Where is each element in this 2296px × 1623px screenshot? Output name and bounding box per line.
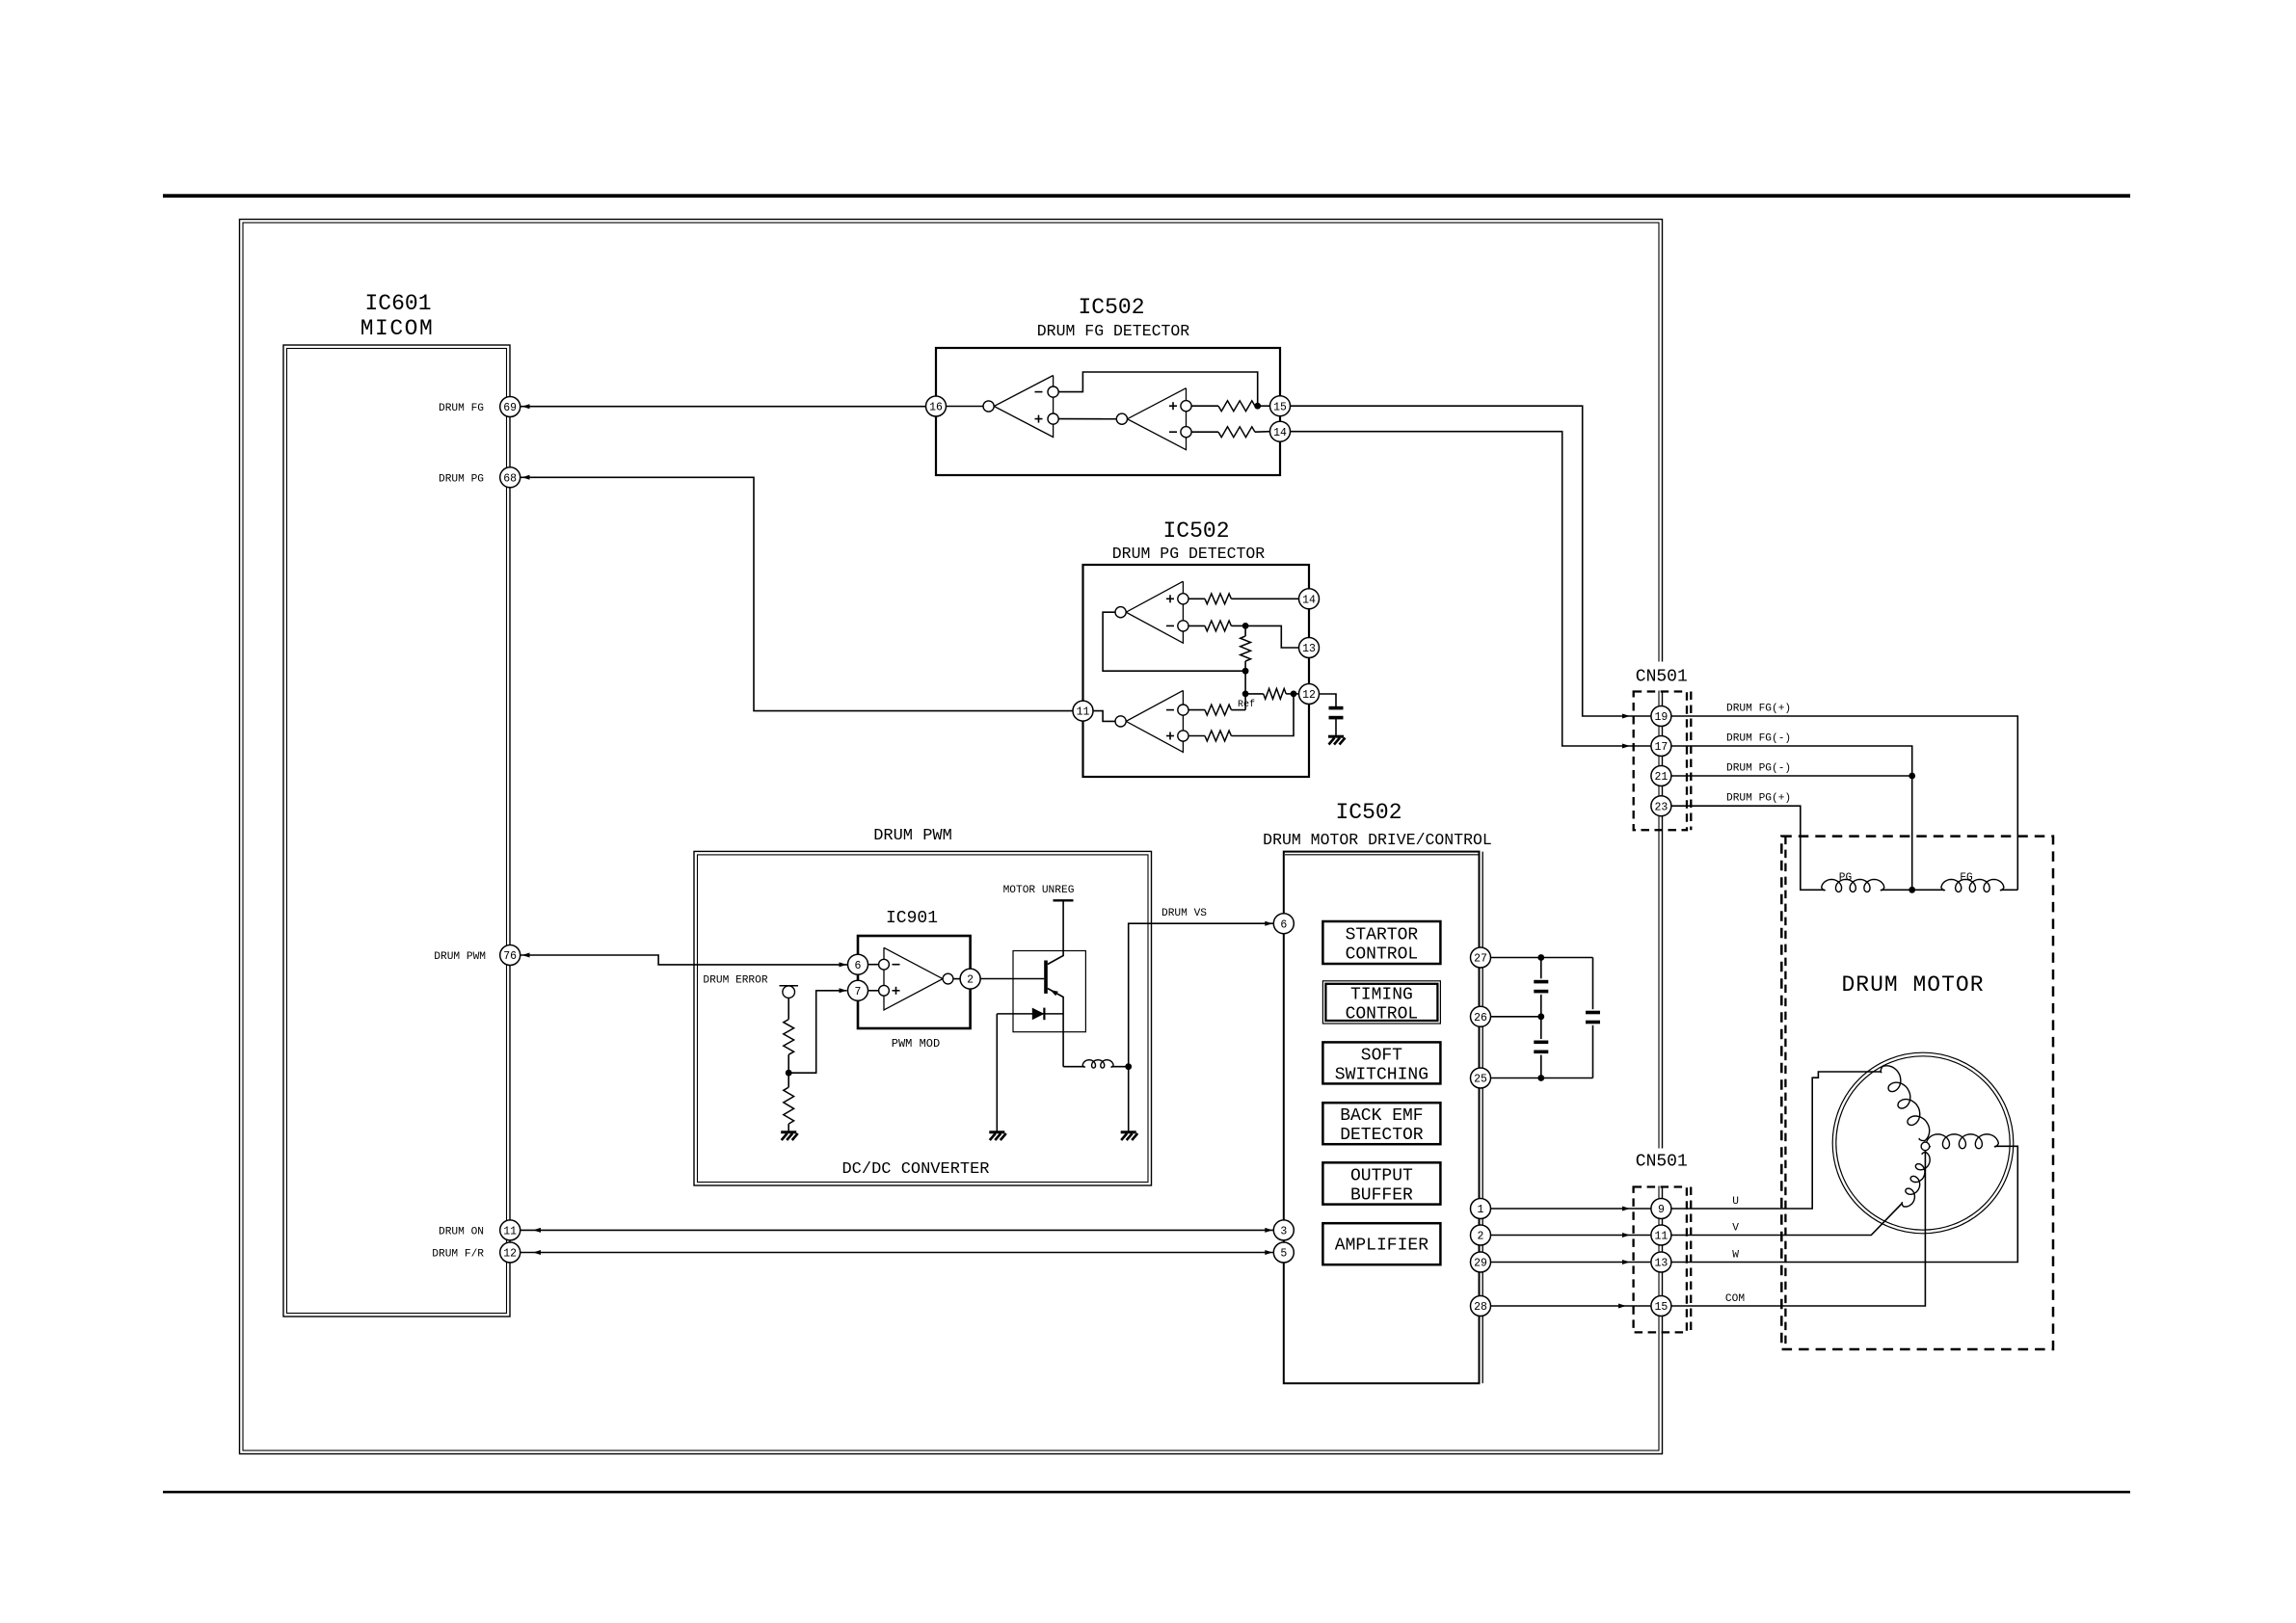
- svg-text:MOTOR UNREG: MOTOR UNREG: [1003, 885, 1075, 896]
- svg-text:Ref: Ref: [1238, 699, 1255, 710]
- ground (VS node): [1121, 1132, 1138, 1140]
- inductor L901: [1082, 1060, 1113, 1068]
- wire CN pin13 W to motor winding 2: [1671, 1146, 2017, 1262]
- resistor R-PG6: [1205, 731, 1231, 741]
- svg-text:26: 26: [1474, 1012, 1487, 1024]
- svg-text:21: 21: [1654, 771, 1668, 784]
- function box BACK EMF DETECTOR: [1322, 1103, 1440, 1144]
- wire junction to Ref node / U-PG2 minus: [1244, 671, 1246, 709]
- svg-text:2: 2: [1478, 1231, 1484, 1243]
- wire pin27 row: [1490, 957, 1593, 959]
- wire output to pin2: [953, 978, 960, 980]
- wire pin26 row: [1490, 1016, 1541, 1018]
- motor winding 1 (U, upper-left): [1881, 1066, 1930, 1141]
- pin 6 IC901: [848, 954, 868, 974]
- svg-text:PWM MOD: PWM MOD: [892, 1037, 940, 1051]
- pin 76 DRUM PWM: [500, 945, 521, 966]
- wire CN pin21 to node: [1671, 775, 1912, 777]
- diode D901: [997, 1013, 1063, 1015]
- junction node FG+: [1254, 403, 1261, 410]
- svg-text:12: 12: [1302, 689, 1316, 702]
- wire to vertical resistor: [1244, 625, 1246, 636]
- wire PG coil to junction: [1882, 889, 1912, 891]
- arrow into pin 5: [1265, 1250, 1272, 1255]
- wire CN pin9 U to motor winding 1: [1671, 1072, 1882, 1209]
- wire pin15 to CN pin19 DRUM FG(+): [1291, 406, 1651, 716]
- wire resistor to junction: [1231, 625, 1245, 626]
- svg-text:DRUM F/R: DRUM F/R: [432, 1249, 484, 1261]
- junction node PG-a: [1242, 623, 1249, 629]
- main board frame (outer): [240, 220, 1663, 1454]
- arrow at pin 11: [533, 1228, 541, 1233]
- svg-text:IC502: IC502: [1078, 295, 1144, 320]
- svg-text:69: 69: [503, 402, 517, 414]
- pin 12 DRUM F/R: [500, 1242, 521, 1263]
- svg-text:CONTROL: CONTROL: [1346, 1004, 1419, 1024]
- arrow into pin 76: [522, 953, 530, 958]
- resistor R-PG4: [1264, 689, 1287, 700]
- svg-text:DETECTOR: DETECTOR: [1340, 1126, 1424, 1145]
- pin 16 FG detector: [926, 396, 947, 416]
- function box STARTOR CONTROL: [1322, 921, 1440, 964]
- wire DRUM PWM pin76 to pin6: [521, 955, 847, 965]
- svg-text:DRUM PWM: DRUM PWM: [434, 951, 486, 963]
- arrow into IC901 pin 6: [840, 962, 847, 967]
- wire U-FG2 plus to resistor: [1191, 405, 1218, 407]
- bottom border rule: [163, 1491, 2130, 1494]
- svg-text:DRUM PG(+): DRUM PG(+): [1726, 793, 1791, 805]
- junction node PG-b: [1242, 668, 1249, 675]
- feedback wire U-FG1: [1058, 372, 1258, 405]
- junction node PG-c: [1291, 691, 1297, 698]
- svg-text:25: 25: [1474, 1074, 1487, 1086]
- function box AMPLIFIER: [1322, 1223, 1440, 1264]
- pin 2 drive: [1471, 1225, 1491, 1245]
- output circle U-FG1: [983, 401, 994, 412]
- wire pin28 to CN pin15 (COM): [1490, 1305, 1651, 1307]
- non-inv input U-FG2: [1181, 401, 1191, 412]
- svg-text:DRUM FG(+): DRUM FG(+): [1726, 704, 1791, 715]
- Q901 collector to MOTOR UNREG: [1048, 900, 1063, 964]
- wire C1 to pin26 node: [1540, 995, 1542, 1017]
- svg-text:DRUM PG(-): DRUM PG(-): [1726, 763, 1791, 775]
- plus sign U901: [893, 990, 900, 992]
- arrow into CN pin 17: [1622, 744, 1630, 749]
- Q901 emitter: [1048, 989, 1063, 1067]
- svg-text:9: 9: [1658, 1204, 1665, 1216]
- inv input U-PG1: [1178, 621, 1188, 631]
- resistor R-FG1: [1218, 401, 1255, 412]
- svg-text:CN501: CN501: [1636, 668, 1688, 687]
- arrow at pin 12: [533, 1250, 541, 1255]
- wire U-FG1 plus to U-FG2 output: [1058, 418, 1116, 420]
- junction node DRUM VS: [1125, 1063, 1132, 1070]
- capacitor C-PG: [1329, 706, 1344, 720]
- svg-text:DRUM FG DETECTOR: DRUM FG DETECTOR: [1037, 322, 1190, 340]
- connector CN501 bottom dashed box: [1634, 1187, 1687, 1333]
- pin 1 drive: [1471, 1199, 1491, 1219]
- connector CN501 top dashed box: [1634, 692, 1687, 831]
- svg-text:U: U: [1732, 1196, 1739, 1208]
- pin 5 drive: [1273, 1242, 1294, 1263]
- svg-text:3: 3: [1280, 1226, 1287, 1238]
- svg-text:SOFT: SOFT: [1361, 1046, 1402, 1065]
- svg-text:13: 13: [1654, 1258, 1668, 1270]
- svg-text:IC901: IC901: [886, 909, 938, 928]
- svg-text:5: 5: [1280, 1248, 1287, 1261]
- wire resistor to pin14: [1255, 431, 1270, 434]
- pin 29 drive: [1471, 1252, 1491, 1272]
- junction pin27 node: [1537, 954, 1544, 961]
- IC901 box: [858, 936, 971, 1028]
- CN501 pin 21: [1651, 766, 1671, 786]
- output circle U-PG1: [1115, 607, 1126, 618]
- wire junction to pin13: [1245, 625, 1298, 648]
- output circle U-FG2: [1116, 413, 1127, 424]
- arrow into pin 69: [522, 404, 530, 409]
- pin 11 DRUM ON: [500, 1220, 521, 1240]
- svg-text:IC502: IC502: [1162, 519, 1229, 544]
- arrow into pin 3: [1265, 1228, 1272, 1233]
- wire capacitor to ground: [1335, 718, 1337, 735]
- resistor R-PG5: [1205, 705, 1231, 715]
- svg-text:DRUM ERROR: DRUM ERROR: [703, 975, 767, 987]
- wire Ref to resistor: [1245, 693, 1264, 695]
- svg-text:DRUM ON: DRUM ON: [439, 1226, 484, 1237]
- wire resistor to junction: [1244, 661, 1246, 671]
- svg-text:IC601: IC601: [364, 291, 431, 316]
- pin 68 DRUM PG: [500, 467, 521, 488]
- pin 28 drive: [1471, 1296, 1491, 1317]
- plus sign U-PG1: [1166, 598, 1174, 599]
- outer right edge drive box: [1482, 852, 1483, 1384]
- capacitor C2: [1534, 1041, 1548, 1054]
- DRUM PWM box: [694, 851, 1152, 1185]
- wire pin7 to non-inv input: [868, 990, 879, 992]
- svg-text:W: W: [1732, 1250, 1739, 1262]
- wire resistor to ground: [788, 1124, 789, 1131]
- svg-text:2: 2: [967, 974, 974, 987]
- svg-text:13: 13: [1302, 643, 1316, 655]
- motor winding 2 (W, right): [1927, 1134, 1999, 1149]
- inv input U-PG2: [1178, 705, 1188, 715]
- wire CN pin11 V to motor winding 3: [1671, 1203, 1903, 1235]
- wire pin25 row: [1490, 1078, 1593, 1079]
- wire pin12 to capacitor C-PG: [1320, 694, 1337, 707]
- MOTOR UNREG supply bar: [1054, 899, 1074, 901]
- plus sign U-FG2: [1169, 405, 1177, 407]
- svg-text:DRUM PG DETECTOR: DRUM PG DETECTOR: [1112, 545, 1266, 563]
- wire CN pin17 to PG/FG junction: [1671, 746, 1912, 890]
- output circle U-PG2: [1115, 716, 1126, 727]
- pin 14 FG detector: [1270, 421, 1291, 441]
- svg-text:6: 6: [855, 960, 862, 972]
- resistor R-FG2: [1218, 427, 1255, 438]
- wire emitter to inductor L901: [1063, 1066, 1084, 1068]
- wire pin16 to U-FG1 output: [947, 406, 984, 408]
- svg-text:TIMING: TIMING: [1350, 985, 1413, 1004]
- svg-text:14: 14: [1273, 427, 1287, 439]
- junction node Ref: [1242, 691, 1249, 698]
- feedback wire U-PG1: [1103, 612, 1245, 671]
- svg-text:27: 27: [1474, 953, 1487, 966]
- resistor R901 (vertical): [784, 1020, 794, 1055]
- DRUM MOTOR dashed box: [1781, 837, 2053, 1349]
- CN501 pin 23: [1651, 796, 1671, 816]
- pin 11 PG detector: [1073, 701, 1093, 721]
- wire pin6 to inv input: [868, 964, 879, 966]
- pin 26 drive: [1471, 1006, 1491, 1026]
- svg-text:DRUM MOTOR: DRUM MOTOR: [1841, 972, 1984, 998]
- svg-text:6: 6: [1280, 918, 1287, 931]
- junction pin25 node: [1537, 1075, 1544, 1081]
- svg-text:29: 29: [1474, 1258, 1487, 1270]
- svg-text:68: 68: [503, 472, 517, 485]
- svg-text:IC502: IC502: [1335, 800, 1402, 825]
- wire pin2 to Q901 base: [980, 978, 1044, 980]
- wire resistor up to node PG-c: [1231, 694, 1294, 736]
- wire U-PG2 minus to resistor: [1188, 709, 1205, 711]
- minus sign U-FG1: [1035, 391, 1043, 393]
- wire C2 to pin25 node: [1540, 1055, 1542, 1078]
- wire DRUM ON pin11 to pin3: [521, 1229, 1273, 1231]
- wire FG coil to CN pin19 drop: [2001, 889, 2018, 891]
- pin 2 IC901: [960, 969, 980, 989]
- capacitor C3: [1586, 1011, 1600, 1024]
- wire U-PG2 plus to resistor: [1188, 735, 1205, 737]
- ground (diode): [989, 1132, 1006, 1140]
- wire U-PG1 minus to resistor: [1188, 625, 1205, 626]
- DRUM MOTOR inner dashed edge: [1784, 837, 1786, 1349]
- Q901 emitter arrow: [1051, 990, 1058, 996]
- ground (error divider): [781, 1132, 798, 1140]
- svg-text:CN501: CN501: [1636, 1153, 1688, 1172]
- plus sign U-PG2: [1166, 735, 1174, 737]
- arrow into pin 68: [522, 475, 530, 480]
- wire pin11 to U-PG2 output: [1093, 711, 1115, 722]
- function box OUTPUT BUFFER: [1322, 1162, 1440, 1204]
- svg-text:DRUM FG: DRUM FG: [439, 403, 484, 414]
- IC502 DRUM MOTOR DRIVE/CONTROL box: [1284, 852, 1480, 1384]
- main board frame (inner): [243, 223, 1659, 1450]
- junction PG/FG common: [1909, 887, 1915, 893]
- junction pin26 node: [1537, 1013, 1544, 1020]
- svg-text:V: V: [1732, 1223, 1739, 1235]
- wire resistor to pin14: [1231, 598, 1298, 599]
- wire DRUM F/R pin12 to pin5: [521, 1252, 1273, 1254]
- arrow into drive pin 6: [1265, 921, 1272, 926]
- CN501 pin 9: [1651, 1199, 1671, 1219]
- wire DRUM PG pin68 to pin11: [521, 477, 1073, 710]
- wire resistor to pin12: [1286, 693, 1298, 695]
- top border rule: [163, 194, 2130, 198]
- op-amp U-FG2: [1128, 388, 1187, 450]
- inductor PG coil: [1822, 879, 1884, 891]
- svg-text:BACK EMF: BACK EMF: [1340, 1106, 1423, 1126]
- op-amp U901: [884, 947, 943, 1010]
- wire resistor to Ref branch: [1231, 709, 1245, 711]
- svg-text:1: 1: [1478, 1204, 1484, 1216]
- IC502 DRUM FG DETECTOR box: [936, 348, 1280, 475]
- wire junction to FG coil: [1912, 889, 1944, 891]
- arrow into CN pin 11: [1622, 1233, 1630, 1237]
- ground (PG detector): [1328, 736, 1346, 744]
- wire DRUM VS to pin6: [1129, 923, 1273, 1066]
- svg-text:76: 76: [503, 950, 517, 963]
- non-inv input U901: [879, 985, 890, 996]
- CN501 pin 13: [1651, 1252, 1671, 1272]
- CN501 pin 15: [1651, 1296, 1671, 1317]
- variable tap symbol (DRUM ERROR input): [780, 985, 799, 987]
- svg-text:SWITCHING: SWITCHING: [1335, 1065, 1428, 1084]
- arrow into IC901 pin 7: [840, 988, 847, 993]
- output circle U901: [943, 973, 953, 984]
- svg-text:11: 11: [503, 1226, 517, 1238]
- svg-text:15: 15: [1273, 401, 1287, 413]
- svg-text:OUTPUT: OUTPUT: [1350, 1166, 1413, 1185]
- inv input U-FG1: [1048, 386, 1058, 397]
- svg-text:7: 7: [855, 986, 862, 998]
- svg-text:DRUM PWM: DRUM PWM: [873, 827, 952, 845]
- arrow into CN pin 9: [1622, 1207, 1630, 1211]
- svg-text:CONTROL: CONTROL: [1346, 945, 1419, 965]
- resistor R902 (vertical): [784, 1087, 794, 1124]
- non-inv input U-PG1: [1178, 594, 1188, 604]
- transistor Q901 base bar: [1044, 961, 1048, 994]
- inv input U901: [879, 959, 890, 970]
- svg-text:14: 14: [1302, 594, 1316, 606]
- svg-text:19: 19: [1654, 711, 1668, 724]
- wire right branch lower: [1592, 1025, 1594, 1078]
- wire inductor to VS node: [1111, 1066, 1129, 1068]
- svg-text:DRUM FG(-): DRUM FG(-): [1726, 733, 1791, 745]
- svg-text:AMPLIFIER: AMPLIFIER: [1335, 1237, 1428, 1256]
- pin 7 IC901: [848, 980, 868, 1000]
- function box TIMING CONTROL: [1322, 981, 1440, 1024]
- wire diode anode to ground: [996, 1014, 998, 1131]
- svg-text:12: 12: [503, 1248, 517, 1261]
- non-inv input U-PG2: [1178, 731, 1188, 741]
- pin 12 PG detector: [1299, 684, 1320, 705]
- pin 25 drive: [1471, 1068, 1491, 1088]
- plus sign U-FG1: [1035, 418, 1043, 420]
- junction FG(-)/PG(-): [1909, 773, 1915, 780]
- capacitor C1: [1534, 980, 1548, 994]
- motor stator ring (inner): [1836, 1056, 2010, 1230]
- svg-text:COM: COM: [1725, 1293, 1745, 1305]
- svg-text:MICOM: MICOM: [360, 316, 435, 341]
- svg-text:DRUM VS: DRUM VS: [1161, 908, 1207, 919]
- motor winding 3 (V, lower-left): [1902, 1152, 1930, 1207]
- svg-text:15: 15: [1654, 1301, 1668, 1314]
- svg-text:DRUM MOTOR DRIVE/CONTROL: DRUM MOTOR DRIVE/CONTROL: [1263, 831, 1492, 849]
- svg-text:11: 11: [1654, 1231, 1668, 1243]
- svg-text:PG: PG: [1839, 872, 1853, 884]
- op-amp U-PG2: [1126, 690, 1183, 752]
- CN501 pin 19: [1651, 706, 1671, 727]
- svg-text:BUFFER: BUFFER: [1350, 1185, 1413, 1205]
- wire VS node to ground: [1128, 1067, 1130, 1131]
- pin 69 DRUM FG: [500, 397, 521, 417]
- op-amp U-PG1: [1126, 581, 1183, 643]
- wire pin29 to CN pin13 (W): [1490, 1262, 1651, 1264]
- minus sign U-PG2: [1166, 709, 1174, 711]
- pin 6 drive: [1273, 914, 1294, 934]
- arrow into CN pin 19: [1622, 714, 1630, 719]
- op-amp U-FG1: [994, 376, 1053, 438]
- svg-text:11: 11: [1077, 706, 1090, 719]
- svg-text:17: 17: [1654, 741, 1668, 754]
- wire CN pin23 to PG coil: [1671, 806, 1825, 890]
- CN501 pin 11: [1651, 1225, 1671, 1245]
- connector CN501 bottom inner dashed edge: [1690, 1187, 1692, 1333]
- resistor R-PG1: [1205, 594, 1231, 604]
- svg-text:DC/DC CONVERTER: DC/DC CONVERTER: [841, 1160, 989, 1179]
- pin 14 PG detector: [1299, 589, 1320, 609]
- inner top edge drive box: [1285, 854, 1479, 856]
- IC block IC601 MICOM box: [283, 345, 510, 1317]
- pin 27 drive: [1471, 947, 1491, 968]
- resistor R-PG2: [1205, 621, 1231, 631]
- wire DRUM FG pin69 to pin16: [521, 406, 926, 408]
- svg-text:DRUM PG: DRUM PG: [439, 473, 484, 485]
- pin 3 drive: [1273, 1220, 1294, 1240]
- wire to resistor R901: [788, 998, 789, 1020]
- motor star point: [1921, 1142, 1930, 1151]
- svg-text:23: 23: [1654, 801, 1668, 813]
- pin 15 FG detector: [1270, 396, 1291, 416]
- function box SOFT SWITCHING: [1322, 1042, 1440, 1083]
- resistor R-PG3 (vertical): [1241, 636, 1251, 661]
- junction node error divider: [786, 1070, 792, 1077]
- wire CN pin15 COM to motor centre: [1671, 1151, 1926, 1306]
- wire pin1 to CN pin9 (U): [1490, 1208, 1651, 1210]
- wire to capacitor C1: [1540, 958, 1542, 979]
- arrow into CN pin 13: [1622, 1260, 1630, 1264]
- inductor FG coil: [1941, 880, 2004, 892]
- wire pin14 to CN pin17 DRUM FG(-): [1291, 432, 1651, 746]
- wire U-FG2 minus to resistor: [1191, 431, 1218, 433]
- wire resistor to junction: [788, 1054, 789, 1087]
- inv input U-FG2: [1181, 427, 1191, 438]
- wire divider to pin7: [788, 991, 846, 1073]
- svg-text:28: 28: [1474, 1301, 1487, 1314]
- minus sign U-PG1: [1166, 625, 1174, 626]
- motor stator ring (outer): [1832, 1052, 2014, 1234]
- wire CN pin19 to FG coil: [1671, 716, 2017, 890]
- IC502 DRUM PG DETECTOR box: [1083, 565, 1310, 777]
- svg-text:16: 16: [929, 402, 943, 414]
- arrow into CN pin 15: [1618, 1304, 1626, 1309]
- transistor block box: [1013, 951, 1085, 1032]
- wire resistor to pin15: [1255, 405, 1270, 407]
- CN501 pin 17: [1651, 736, 1671, 757]
- connector CN501 top inner dashed edge: [1690, 692, 1692, 831]
- wire U-PG1 plus to resistor: [1188, 598, 1205, 599]
- pin 13 PG detector: [1299, 638, 1320, 658]
- wire pin2 to CN pin11 (V): [1490, 1235, 1651, 1237]
- minus sign U901: [893, 964, 900, 966]
- wire right branch upper: [1592, 958, 1594, 1010]
- non-inv input U-FG1: [1048, 413, 1058, 424]
- minus sign U-FG2: [1169, 431, 1177, 433]
- svg-text:FG: FG: [1960, 872, 1973, 884]
- svg-text:STARTOR: STARTOR: [1346, 926, 1419, 945]
- wire pin26 node to C2: [1540, 1017, 1542, 1039]
